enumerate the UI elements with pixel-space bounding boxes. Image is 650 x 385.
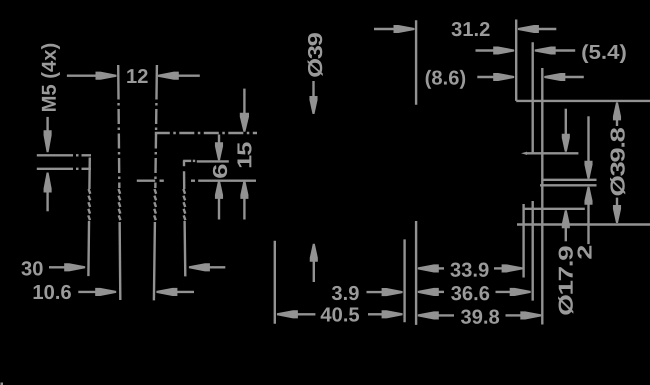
- dimension 8.6 left arrow: [477, 76, 495, 78]
- hole edge line V1: [88, 158, 91, 190]
- hole centerline B slanted dash-dot: [155, 65, 157, 188]
- dimension 6 top line with dash-dot lead from V4 corner: [183, 160, 191, 162]
- label diameter 17.9: [558, 246, 573, 314]
- label 36.6: [451, 286, 489, 300]
- groove line upper: [542, 179, 596, 181]
- dimension 2 lower arrow: [584, 187, 592, 205]
- label 40.5: [321, 307, 359, 321]
- leader arrow for M5 holes: [46, 117, 48, 134]
- dia39.8 dimension up arrow: [613, 102, 621, 120]
- dimension 36.6 left arrow: [418, 288, 439, 296]
- hole edge line V4: [183, 160, 185, 166]
- label 10.6: [34, 285, 71, 299]
- dimension 31.2 right arrow: [374, 28, 396, 30]
- extension line x416 lower segment: [415, 221, 417, 325]
- left extension line x275: [274, 241, 276, 324]
- dia17.9 down arrow: [565, 109, 567, 135]
- extension stub x523.6: [522, 204, 524, 278]
- label 39.8: [461, 310, 499, 324]
- label diameter 39: [308, 33, 323, 77]
- dimension 5.4 right arrow: [535, 46, 556, 54]
- dimension 30 left arrow: [49, 266, 66, 268]
- dimension 8.6 right arrow: [544, 73, 565, 81]
- label 6: [213, 165, 227, 178]
- dimension 6 down arrow: [218, 135, 220, 144]
- label diameter 39.8: [610, 128, 625, 195]
- dimension 2 upper arrow: [587, 116, 589, 162]
- dimension 15 down arrow: [243, 89, 245, 113]
- dia39.8 dimension down arrow: [616, 198, 618, 207]
- hub line: [523, 208, 585, 210]
- label 31.2: [452, 22, 490, 36]
- dia39 up arrow: [310, 244, 318, 262]
- extension line x416 upper segment: [415, 20, 417, 105]
- edge line x532.7 upper: [532, 42, 534, 153]
- bottom face line: [517, 223, 650, 225]
- shaft edge line x542: [541, 68, 543, 325]
- dimension 40.5 right arrow: [368, 313, 384, 315]
- hole centerline A slanted dash-dot: [118, 65, 119, 188]
- label 3.9: [332, 286, 359, 300]
- dimension 31.2 left arrow at x516: [518, 25, 539, 33]
- dimension 12 right arrow: [158, 72, 179, 80]
- lower flange edge line: [37, 168, 73, 170]
- stray mark bottom left corner: [1, 383, 4, 385]
- groove line lower: [540, 184, 597, 186]
- extension line x404.6: [403, 239, 405, 322]
- dimension 10.6 left arrow: [78, 291, 97, 293]
- label (5.4): [582, 44, 625, 63]
- dimension 12 left arrow: [67, 74, 98, 76]
- dimension 36.6 right arrow: [496, 291, 512, 293]
- dimension 30 right arrow: [189, 263, 210, 271]
- label 30: [21, 261, 42, 275]
- horizontal centerline dash-dot: [155, 132, 257, 134]
- bottom reference line: [137, 179, 155, 181]
- label (8.6): [426, 70, 466, 89]
- dia39 down arrow: [312, 81, 314, 97]
- flange thickness arrow up: [44, 173, 52, 193]
- dimension 39.8 right arrow: [506, 314, 522, 316]
- dimension 39.8 left arrow: [418, 311, 439, 319]
- dimension 3.9 arrow: [367, 291, 384, 293]
- dimension 6 up arrow: [215, 181, 223, 199]
- label 12: [127, 69, 147, 83]
- dimension 15 up arrow: [240, 181, 248, 199]
- top face line: [516, 100, 650, 102]
- dimension 5.4 left arrow: [476, 49, 496, 51]
- dimension 33.9 right arrow: [494, 267, 504, 269]
- label 33.9: [450, 263, 488, 277]
- label 2: [577, 246, 591, 259]
- dimension 33.9 left arrow: [418, 264, 439, 272]
- body edge line x516: [515, 20, 517, 101]
- dimension 40.5 left arrow: [277, 310, 298, 318]
- extension stub x532.7 lower: [532, 201, 534, 301]
- shoulder line with tapered left end: [521, 152, 527, 155]
- label 15: [237, 142, 251, 167]
- upper flange edge line: [37, 154, 73, 156]
- dia17.9 up arrow: [562, 210, 570, 228]
- dimension 10.6 right arrow: [156, 288, 177, 296]
- label M5 (4x) thread callout: [41, 44, 60, 111]
